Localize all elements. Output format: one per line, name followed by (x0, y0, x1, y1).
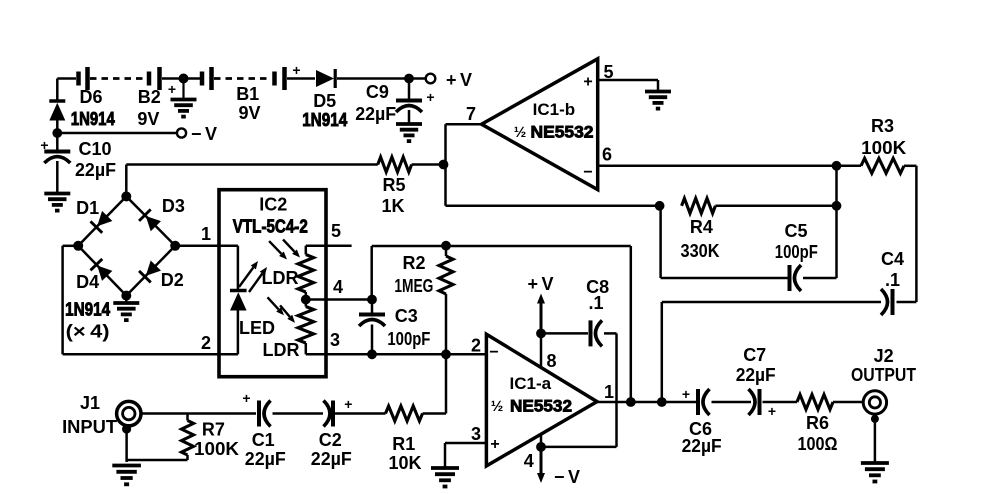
wire C1 to C2 (273, 412, 324, 415)
svg-text:+: + (168, 81, 176, 97)
wire to -V terminal (57, 132, 176, 135)
ground J1 (112, 464, 141, 468)
wire pin8 riser (540, 333, 543, 368)
IC2 box outline (219, 190, 326, 377)
node J2 ground tap (871, 415, 879, 423)
svg-text:J1: J1 (80, 393, 100, 413)
svg-text:7: 7 (466, 104, 476, 124)
svg-text:D2: D2 (161, 270, 184, 290)
resistor R1 (386, 406, 423, 421)
diode D5 (316, 69, 335, 88)
wire input row (141, 412, 256, 415)
terminal -V (177, 128, 186, 137)
wire J1 sleeve to ground (125, 429, 128, 462)
node battery center tap (179, 74, 189, 84)
svg-text:C1: C1 (252, 430, 275, 450)
wire D5 to +V (337, 77, 426, 80)
svg-text:LED: LED (239, 318, 275, 338)
resistor R5 (378, 157, 412, 172)
node C4/output (657, 397, 667, 407)
wire pin3 to ground (445, 442, 486, 445)
capacitor C7 (749, 389, 756, 415)
ground IC1-a pin3 (431, 466, 459, 470)
wire IC2 pin3 row (306, 353, 326, 356)
wire J2 to ground (874, 414, 877, 462)
svg-text:J2: J2 (874, 346, 894, 366)
ground IC1-b pin5 (645, 90, 671, 94)
svg-text:3: 3 (330, 330, 340, 350)
wire dashed battery link B1 (214, 77, 271, 80)
capacitor C4 (891, 289, 895, 315)
svg-text:100K: 100K (194, 439, 239, 459)
svg-text:D1: D1 (76, 198, 99, 218)
wire pin4 riser (540, 435, 543, 447)
svg-text:+: + (768, 403, 776, 419)
diode D6 (49, 99, 65, 103)
wire bridge right to IC2 pin 1 (175, 244, 219, 247)
svg-text:6: 6 (602, 145, 612, 165)
connector J2 (863, 391, 886, 414)
svg-text:D6: D6 (79, 87, 102, 107)
svg-text:(× 4): (× 4) (66, 322, 110, 342)
svg-text:D3: D3 (162, 196, 185, 216)
capacitor C5 (788, 265, 792, 291)
svg-text:INPUT: INPUT (62, 417, 117, 437)
node LDR junction pin 4 (301, 295, 311, 305)
ground C10 (44, 192, 70, 196)
svg-text:LDR: LDR (263, 340, 300, 360)
svg-text:½: ½ (491, 398, 504, 415)
wire R1 to pin2 node (423, 412, 447, 415)
wire pin7 output (446, 123, 482, 126)
wire dashed battery link B2 (90, 77, 145, 80)
svg-text:1N914: 1N914 (65, 300, 110, 320)
svg-text:+ V: + V (527, 274, 553, 294)
battery cell (part of B1 string) (200, 72, 205, 86)
capacitor C1 (257, 401, 261, 427)
svg-text:+ V: + V (446, 70, 472, 90)
svg-text:22µF: 22µF (355, 104, 396, 124)
node D6 cathode junction (52, 128, 62, 138)
LDR lower (photoresistor) (305, 300, 308, 307)
node pin4 (536, 442, 546, 452)
svg-text:IC1-b: IC1-b (533, 100, 576, 119)
diode D2 (139, 260, 162, 283)
svg-text:LDR: LDR (262, 268, 299, 288)
svg-text:1K: 1K (381, 196, 404, 216)
svg-text:R1: R1 (392, 434, 415, 454)
wire C9 to ground (408, 110, 411, 123)
light arrows from LED (239, 268, 253, 288)
node R2 top (441, 241, 451, 251)
capacitor C9 (396, 99, 422, 103)
svg-text:NE5532: NE5532 (510, 397, 572, 416)
svg-text:−: − (583, 164, 592, 181)
node R4 right (832, 201, 842, 211)
node C3 top / pin4 junction (367, 295, 377, 305)
svg-text:R4: R4 (690, 217, 713, 237)
ground J2 (861, 461, 889, 465)
capacitor C6 (696, 389, 700, 415)
node bridge top (121, 191, 131, 201)
wire R5 to pin7 node (412, 163, 446, 166)
wire bridge left rail to IC2 pin 2 (63, 245, 79, 248)
svg-text:C9: C9 (366, 82, 389, 102)
svg-text:D4: D4 (76, 272, 99, 292)
svg-text:.1: .1 (885, 270, 900, 290)
diode D4 (90, 259, 113, 282)
wire IC2 pin1 to LED (219, 244, 238, 247)
svg-text:C7: C7 (743, 345, 766, 365)
svg-text:22µF: 22µF (682, 436, 722, 456)
svg-text:4: 4 (524, 451, 534, 471)
svg-text:100pF: 100pF (775, 242, 818, 262)
node bridge left (73, 241, 83, 251)
svg-text:IC2: IC2 (259, 195, 287, 215)
svg-text:8: 8 (546, 351, 556, 371)
svg-text:− V: − V (191, 124, 217, 144)
node bridge bottom (121, 291, 131, 301)
resistor R7 (186, 414, 189, 421)
node R5/pin7 (439, 160, 449, 170)
wire C5 loop left (659, 206, 662, 278)
wire C7 to R6 (763, 401, 798, 404)
svg-text:4: 4 (333, 277, 343, 297)
wire IC2 pin5 stub (306, 244, 352, 247)
svg-text:C10: C10 (78, 139, 111, 159)
node C3 bottom (367, 349, 377, 359)
wire C2 to R1 (335, 412, 386, 415)
battery B1 cell (272, 72, 277, 86)
svg-text:− V: − V (554, 467, 580, 487)
capacitor C2 (324, 401, 331, 427)
svg-text:+: + (583, 74, 592, 91)
svg-text:−: − (489, 344, 498, 361)
svg-text:C5: C5 (784, 221, 807, 241)
svg-text:1N914: 1N914 (71, 109, 115, 129)
svg-text:22µF: 22µF (75, 160, 116, 180)
svg-text:1: 1 (201, 224, 211, 244)
op-amp U1b triangle (482, 59, 598, 190)
wire bridge top to R5 row (125, 165, 128, 197)
svg-text:9V: 9V (137, 109, 159, 129)
svg-text:22µF: 22µF (311, 449, 352, 469)
svg-text:½: ½ (514, 124, 527, 141)
wire IC2 pin4 to C3 (306, 298, 372, 301)
ground battery center tap (182, 79, 184, 99)
wire pin8 to C8 (541, 332, 588, 335)
wire pin3 row to IC1-a pin2 (326, 353, 486, 356)
svg-text:R2: R2 (402, 253, 425, 273)
wire C8 to pin4 loop (604, 332, 617, 335)
svg-text:2: 2 (201, 333, 211, 353)
wire bridge edges (78, 196, 126, 245)
svg-text:100Ω: 100Ω (798, 434, 838, 454)
svg-text:+: + (426, 89, 434, 105)
svg-text:22µF: 22µF (736, 365, 776, 385)
svg-text:10K: 10K (388, 453, 421, 473)
svg-text:22µF: 22µF (245, 449, 286, 469)
capacitor C8 (589, 320, 593, 346)
node R4 left (655, 201, 665, 211)
svg-text:9V: 9V (238, 103, 260, 123)
svg-text:B1: B1 (236, 84, 259, 104)
connector J1 (117, 401, 141, 425)
resistor R2 (445, 246, 448, 256)
svg-text:+: + (242, 390, 250, 406)
wire C10 to ground (56, 161, 59, 192)
svg-text:330K: 330K (681, 241, 720, 261)
node pin6/R3 (832, 161, 842, 171)
wire pin7 node to R4 row (446, 205, 660, 208)
wire B1 to D5 (287, 77, 315, 80)
svg-text:+: + (344, 396, 352, 412)
node R2 bottom / R1 junction (441, 349, 451, 359)
wire R4 to right node (715, 205, 836, 208)
battery B2 cell (147, 72, 152, 86)
node feedback/output (626, 397, 636, 407)
LED in IC2 (230, 289, 247, 293)
wire pin5 to ground (598, 79, 658, 82)
svg-text:+: + (292, 62, 300, 78)
wire feedback row from C3 corner to output (372, 245, 631, 248)
node bridge right (170, 241, 180, 251)
svg-text:R6: R6 (806, 413, 829, 433)
svg-text:2: 2 (471, 336, 481, 356)
svg-text:+: + (682, 386, 690, 402)
resistor R6 (797, 395, 833, 410)
wire C9 down (408, 79, 411, 100)
svg-text:NE5532: NE5532 (531, 123, 594, 142)
wire R3 to C4 (904, 165, 916, 168)
node pin8 (536, 329, 546, 339)
node C9 tap (404, 74, 414, 84)
svg-text:5: 5 (331, 221, 341, 241)
op-amp U1a triangle (486, 334, 597, 466)
wire R6 to J2 (833, 401, 863, 404)
diode D1 (90, 210, 113, 233)
wire pin6 row (598, 165, 837, 168)
ground bridge bottom (125, 296, 128, 302)
svg-text:1: 1 (604, 382, 614, 402)
ground C9 (396, 122, 422, 126)
svg-text:100K: 100K (861, 138, 906, 158)
resistor R3 (837, 165, 862, 168)
wire C6 to C7 (712, 401, 752, 404)
svg-text:1MEG: 1MEG (394, 276, 433, 296)
capacitor C3 (359, 313, 385, 317)
svg-text:C3: C3 (395, 306, 418, 326)
svg-text:+: + (490, 436, 499, 453)
wire C4 to output node (662, 301, 881, 304)
svg-text:.1: .1 (588, 293, 603, 313)
wire B2 to junction (162, 77, 200, 80)
svg-text:OUTPUT: OUTPUT (851, 365, 916, 385)
svg-text:R3: R3 (871, 116, 894, 136)
light arrows into LDR lower (268, 297, 279, 309)
svg-text:C4: C4 (881, 249, 904, 269)
svg-text:R7: R7 (202, 420, 225, 440)
wire top-left corner from D6 to battery string (57, 77, 76, 80)
LDR upper (photoresistor) (305, 246, 308, 255)
svg-text:100pF: 100pF (387, 329, 430, 349)
light arrows into LDR upper (269, 241, 281, 254)
arrow +V supply (540, 304, 543, 334)
wire output row (597, 401, 696, 404)
svg-text:+: + (40, 137, 48, 153)
capacitor C10 (44, 150, 70, 154)
terminal +V (426, 74, 436, 84)
arrow -V supply (540, 447, 543, 473)
svg-text:VTL-5C4-2: VTL-5C4-2 (233, 217, 308, 237)
node J1 sleeve (122, 424, 131, 433)
wire junction to C10 (56, 133, 59, 150)
svg-text:R5: R5 (382, 175, 405, 195)
svg-text:1N914: 1N914 (302, 110, 347, 130)
wire C5 loop right (803, 277, 837, 280)
svg-text:IC1-a: IC1-a (510, 374, 552, 393)
diode D3 (139, 209, 162, 232)
resistor R4 (682, 198, 716, 213)
svg-text:D5: D5 (313, 91, 336, 111)
svg-text:C2: C2 (319, 430, 342, 450)
battery cell (part of B2 string) (76, 72, 81, 86)
svg-text:B2: B2 (138, 87, 161, 107)
svg-text:3: 3 (471, 424, 481, 444)
